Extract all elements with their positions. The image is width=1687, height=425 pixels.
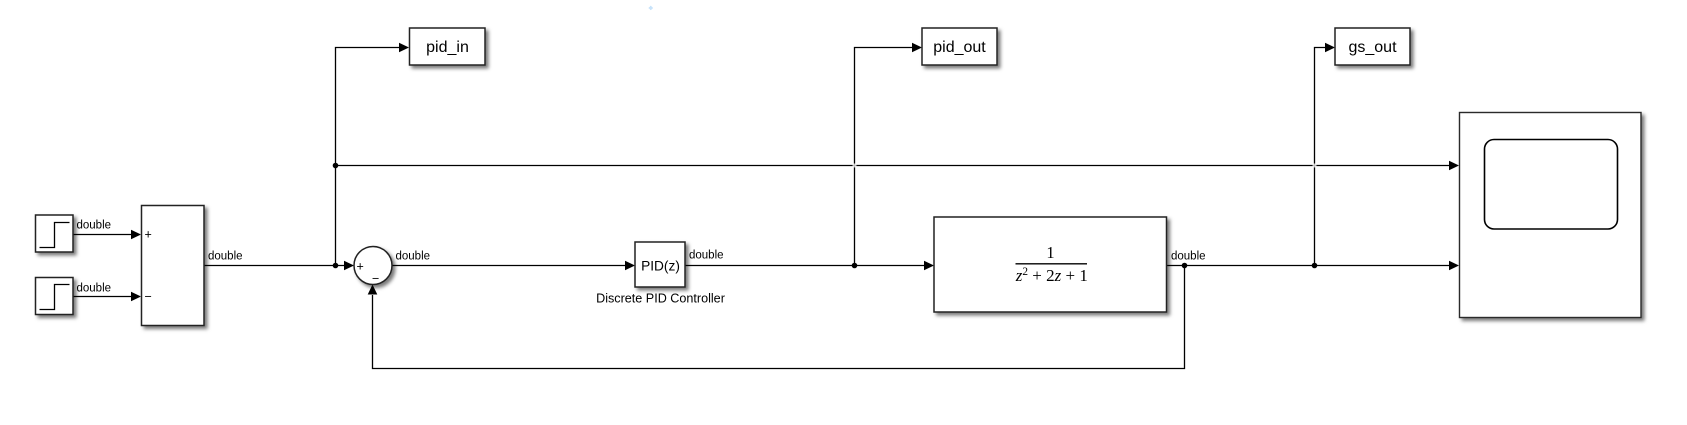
node: junction dot at feedback branch <box>1182 263 1188 269</box>
goto tag pid_in <box>410 28 486 65</box>
node: junction dot at branch to pid_in <box>333 263 339 269</box>
svg-text:+: + <box>145 228 152 242</box>
svg-text:gs_out: gs_out <box>1348 39 1397 56</box>
node: junction dot at branch to pid_out <box>852 263 858 269</box>
svg-text:double: double <box>1171 250 1206 262</box>
badge marker (blue cross annotation) <box>649 6 653 10</box>
svg-text:double: double <box>77 219 112 231</box>
svg-text:double: double <box>77 282 112 294</box>
wire: feedback path to summing junction - input <box>368 266 1185 369</box>
transfer function block plant <box>934 217 1167 312</box>
step source Step2 <box>36 278 74 315</box>
svg-text:double: double <box>208 250 243 262</box>
svg-text:1: 1 <box>1046 243 1054 262</box>
goto tag pid_out <box>922 28 997 65</box>
wire: branch up from error signal to pid_in <box>336 43 410 266</box>
step source Step1 <box>36 215 74 252</box>
wire: branch up from PID output to pid_out <box>855 43 923 266</box>
goto tag gs_out <box>1335 28 1410 65</box>
node: junction dot at branch to gs_out <box>1312 263 1318 269</box>
svg-text:Discrete PID Controller: Discrete PID Controller <box>596 292 725 306</box>
svg-text:double: double <box>689 249 724 261</box>
wire: Step2 output to Sum - input <box>74 292 142 302</box>
wire: summing junction output to PID controller <box>392 261 635 271</box>
wire: Step1 output to Sum + input <box>74 230 142 240</box>
svg-text:pid_in: pid_in <box>426 39 469 56</box>
wire crossing gap at (1314,165) <box>1313 164 1317 168</box>
wire: Sum output to summing junction <box>205 261 355 271</box>
wire crossing gap at (855,165) <box>853 164 857 168</box>
node: junction dot at top rail branch <box>333 163 339 169</box>
scope block <box>1460 113 1642 318</box>
transfer function fraction bar <box>1016 263 1088 265</box>
svg-text:double: double <box>396 250 431 262</box>
wire: Transfer Fcn output to Scope second input <box>1167 261 1460 271</box>
scope screen <box>1485 140 1618 230</box>
sum block Add <box>142 206 205 326</box>
svg-text:−: − <box>372 272 379 286</box>
PID controller block U:PID <box>635 242 685 287</box>
svg-text:PID(z): PID(z) <box>641 259 680 274</box>
wire: top rail to Scope first input <box>336 161 1460 171</box>
wire: PID output to Transfer Fcn <box>686 261 935 271</box>
svg-text:pid_out: pid_out <box>933 39 986 56</box>
summing junction circle <box>354 247 392 285</box>
wire: branch up from plant output to gs_out <box>1315 43 1336 266</box>
svg-text:−: − <box>145 290 152 304</box>
svg-text:+: + <box>357 260 364 274</box>
